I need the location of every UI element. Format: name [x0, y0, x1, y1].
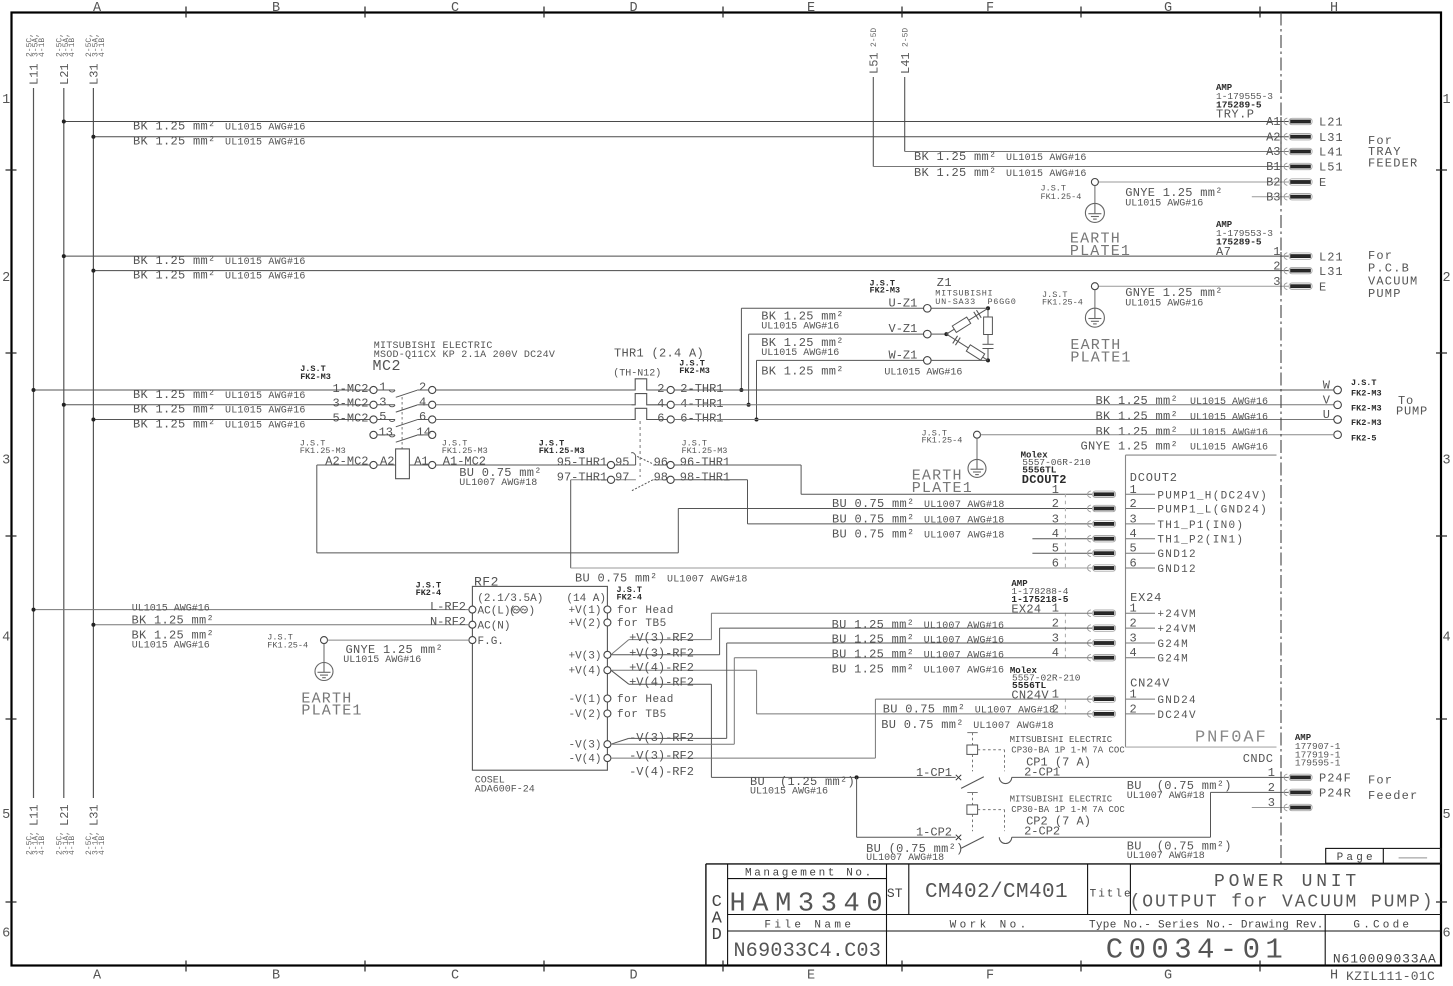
svg-text:-V(4)-RF2: -V(4)-RF2	[629, 765, 694, 779]
svg-text:V-Z1: V-Z1	[889, 322, 918, 336]
svg-text:BK 1.25 mm²: BK 1.25 mm²	[133, 388, 216, 402]
svg-text:E: E	[1319, 280, 1327, 294]
svg-text:G.Code: G.Code	[1353, 920, 1412, 932]
svg-text:N610009033AA: N610009033AA	[1333, 951, 1437, 966]
svg-text:H: H	[1330, 1, 1338, 16]
svg-text:2: 2	[657, 382, 664, 396]
svg-text:5: 5	[379, 410, 386, 424]
svg-text:FK2-M3: FK2-M3	[1351, 389, 1382, 399]
svg-text:13: 13	[379, 426, 393, 440]
svg-text:2-THR1: 2-THR1	[680, 382, 723, 396]
svg-text:Page: Page	[1337, 852, 1376, 864]
svg-text:UL1007 AWG#16: UL1007 AWG#16	[924, 636, 1005, 647]
svg-text:AC(N): AC(N)	[478, 620, 511, 632]
svg-text:FK2-M3: FK2-M3	[1351, 403, 1382, 413]
svg-text:D: D	[712, 926, 722, 945]
svg-text:-V(2): -V(2)	[568, 709, 601, 721]
svg-text:A: A	[93, 1, 102, 16]
svg-text:DCOUT2: DCOUT2	[1130, 471, 1178, 485]
svg-text:L41: L41	[899, 52, 913, 74]
svg-text:L11: L11	[28, 804, 42, 826]
svg-text:UL1015 AWG#16: UL1015 AWG#16	[761, 321, 839, 332]
svg-text:C0034-01: C0034-01	[1106, 934, 1288, 967]
svg-text:FK2-M3: FK2-M3	[300, 372, 331, 382]
svg-text:FK1.25-4: FK1.25-4	[267, 640, 308, 650]
svg-text:3: 3	[1130, 632, 1137, 646]
svg-text:A2: A2	[380, 454, 394, 468]
svg-text:UL1007 AWG#18: UL1007 AWG#18	[924, 530, 1005, 541]
svg-text:4-1B: 4-1B	[68, 836, 77, 855]
svg-text:4-1B: 4-1B	[38, 38, 47, 57]
svg-text:): )	[529, 605, 536, 617]
svg-text:+24VM: +24VM	[1157, 609, 1197, 621]
svg-text:96: 96	[654, 455, 668, 469]
svg-text:1: 1	[379, 381, 386, 395]
svg-text:UL1007 AWG#18: UL1007 AWG#18	[866, 853, 944, 864]
svg-text:BK 1.25 mm²: BK 1.25 mm²	[761, 365, 844, 379]
svg-text:1-CP1: 1-CP1	[916, 766, 952, 780]
svg-text:U-Z1: U-Z1	[889, 297, 918, 311]
svg-text:6: 6	[2, 927, 10, 942]
svg-text:3: 3	[1268, 796, 1275, 810]
svg-text:BU 0.75 mm²: BU 0.75 mm²	[881, 718, 964, 732]
svg-text:GND12: GND12	[1157, 564, 1197, 576]
svg-text:B2: B2	[1266, 176, 1280, 190]
svg-text:for TB5: for TB5	[617, 709, 667, 721]
svg-text:2-CP1: 2-CP1	[1024, 765, 1060, 779]
svg-text:F: F	[986, 969, 994, 984]
svg-text:BU 1.25 mm²: BU 1.25 mm²	[832, 663, 915, 677]
svg-text:A: A	[93, 969, 102, 984]
svg-text:FK2-5: FK2-5	[1351, 434, 1377, 444]
svg-text:BK 1.25 mm²: BK 1.25 mm²	[1095, 410, 1178, 424]
svg-text:UL1015 AWG#16: UL1015 AWG#16	[1125, 298, 1203, 309]
svg-text:C: C	[451, 969, 459, 984]
svg-text:4-1B: 4-1B	[98, 38, 107, 57]
svg-text:4: 4	[419, 395, 426, 409]
svg-text:BK 1.25 mm²: BK 1.25 mm²	[133, 120, 216, 134]
svg-text:3: 3	[1442, 454, 1450, 469]
svg-text:PUMP1_H(DC24V): PUMP1_H(DC24V)	[1157, 490, 1268, 502]
svg-text:BK 1.25 mm²: BK 1.25 mm²	[1095, 394, 1178, 408]
svg-text:UL1015 AWG#16: UL1015 AWG#16	[1190, 443, 1268, 454]
svg-text:+V(2): +V(2)	[568, 618, 601, 630]
svg-text:BK 1.25 mm²: BK 1.25 mm²	[133, 269, 216, 283]
svg-text:E: E	[807, 1, 815, 16]
svg-text:BK 1.25 mm²: BK 1.25 mm²	[133, 135, 216, 149]
svg-text:ADA600F-24: ADA600F-24	[475, 784, 535, 795]
svg-text:A2-MC2: A2-MC2	[325, 454, 368, 468]
svg-text:BU 0.75 mm²: BU 0.75 mm²	[832, 527, 915, 541]
svg-text:6-THR1: 6-THR1	[680, 412, 723, 426]
svg-text:2: 2	[1268, 781, 1275, 795]
svg-text:MITSUBISHI ELECTRIC: MITSUBISHI ELECTRIC	[1010, 735, 1113, 745]
svg-text:5: 5	[1130, 542, 1137, 556]
svg-text:BU 1.25 mm²: BU 1.25 mm²	[832, 618, 915, 632]
svg-text:3: 3	[379, 395, 386, 409]
svg-text:UL1015 AWG#16: UL1015 AWG#16	[132, 641, 210, 652]
svg-text:BU 0.75 mm²: BU 0.75 mm²	[832, 512, 915, 526]
svg-text:POWER UNIT: POWER UNIT	[1214, 872, 1360, 892]
svg-text:Title: Title	[1090, 889, 1133, 901]
svg-text:EX24: EX24	[1130, 591, 1162, 605]
svg-text:G24M: G24M	[1157, 654, 1189, 666]
svg-text:UL1007 AWG#16: UL1007 AWG#16	[924, 621, 1005, 632]
svg-text:UL1015 AWG#16: UL1015 AWG#16	[1006, 153, 1087, 164]
svg-text:FK2-M3: FK2-M3	[679, 366, 710, 376]
svg-text:4: 4	[1130, 646, 1137, 660]
svg-text:L51: L51	[1319, 161, 1344, 175]
svg-text:UL1007 AWG#16: UL1007 AWG#16	[924, 666, 1005, 677]
svg-text:FK2-4: FK2-4	[617, 593, 643, 603]
svg-text:BU 1.25 mm²: BU 1.25 mm²	[832, 647, 915, 661]
svg-text:UL1015 AWG#16: UL1015 AWG#16	[884, 368, 962, 379]
svg-text:1: 1	[2, 93, 10, 108]
svg-text:(14 A): (14 A)	[566, 593, 606, 605]
svg-text:E: E	[1319, 176, 1327, 190]
svg-text:L21: L21	[58, 63, 72, 85]
svg-text:UL1007 AWG#16: UL1007 AWG#16	[924, 650, 1005, 661]
svg-text:BK 1.25 mm²: BK 1.25 mm²	[914, 150, 997, 164]
svg-text:L31: L31	[88, 63, 102, 85]
svg-text:+V(3)-RF2: +V(3)-RF2	[629, 646, 694, 660]
svg-text:2: 2	[1130, 702, 1137, 716]
svg-text:+V(1): +V(1)	[568, 605, 601, 617]
svg-text:UL1007 AWG#18: UL1007 AWG#18	[1127, 851, 1205, 862]
svg-text:4-1B: 4-1B	[68, 38, 77, 57]
svg-text:CM402/CM401: CM402/CM401	[925, 881, 1068, 904]
svg-text:2-5D: 2-5D	[901, 28, 910, 47]
svg-text:TRY.P: TRY.P	[1216, 108, 1255, 122]
svg-text:FK2-4: FK2-4	[416, 588, 442, 598]
svg-text:D: D	[629, 969, 637, 984]
svg-text:4: 4	[2, 631, 10, 646]
svg-text:PUMP: PUMP	[1368, 287, 1402, 301]
svg-text:(OUTPUT for VACUUM PUMP): (OUTPUT for VACUUM PUMP)	[1130, 893, 1435, 913]
svg-text:B3: B3	[1266, 190, 1280, 204]
svg-text:2: 2	[1130, 497, 1137, 511]
svg-text:2: 2	[1273, 259, 1280, 273]
svg-text:PLATE1: PLATE1	[1070, 350, 1131, 367]
svg-text:UL1007 AWG#18: UL1007 AWG#18	[1127, 791, 1205, 802]
svg-text:UL1015 AWG#16: UL1015 AWG#16	[225, 391, 306, 402]
svg-text:5-MC2: 5-MC2	[332, 411, 368, 425]
svg-text:BU 0.75 mm²: BU 0.75 mm²	[832, 497, 915, 511]
svg-text:FK2-M3: FK2-M3	[870, 286, 901, 296]
svg-text:L31: L31	[1319, 131, 1344, 145]
svg-text:TH1_P2(IN1): TH1_P2(IN1)	[1157, 535, 1244, 547]
svg-text:2: 2	[1442, 271, 1450, 286]
svg-text:PUMP: PUMP	[1396, 405, 1428, 419]
svg-text:A7: A7	[1216, 245, 1231, 259]
svg-text:MITSUBISHI ELECTRIC: MITSUBISHI ELECTRIC	[1010, 795, 1113, 805]
svg-text:UL1007 AWG#18: UL1007 AWG#18	[924, 500, 1005, 511]
svg-text:GND24: GND24	[1157, 695, 1197, 707]
svg-text:P24R: P24R	[1319, 787, 1352, 801]
svg-text:-V(3)-RF2: -V(3)-RF2	[629, 731, 694, 745]
svg-text:+V(4)-RF2: +V(4)-RF2	[629, 675, 694, 689]
svg-text:95-THR1: 95-THR1	[557, 455, 607, 469]
svg-text:UL1015 AWG#16: UL1015 AWG#16	[225, 272, 306, 283]
svg-text:5: 5	[2, 808, 10, 823]
svg-text:6: 6	[1130, 557, 1137, 571]
svg-text:D: D	[629, 1, 637, 16]
svg-text:DC24V: DC24V	[1157, 710, 1197, 722]
svg-text:For: For	[1368, 774, 1393, 788]
svg-text:2: 2	[2, 271, 10, 286]
svg-text:L-RF2: L-RF2	[430, 600, 466, 614]
svg-text:B: B	[272, 969, 280, 984]
svg-text:AC(L): AC(L)	[478, 605, 511, 617]
svg-text:G24M: G24M	[1157, 639, 1189, 651]
svg-text:98-THR1: 98-THR1	[680, 471, 730, 485]
svg-text:P24F: P24F	[1319, 772, 1352, 786]
svg-text:4-THR1: 4-THR1	[680, 397, 723, 411]
svg-text:BK 1.25 mm²: BK 1.25 mm²	[1095, 425, 1178, 439]
svg-text:B: B	[272, 1, 280, 16]
svg-text:UL1015 AWG#16: UL1015 AWG#16	[225, 406, 306, 417]
svg-text:-V(3)-RF2: -V(3)-RF2	[629, 749, 694, 763]
svg-text:PNF0AF: PNF0AF	[1195, 729, 1268, 748]
svg-text:3: 3	[1130, 512, 1137, 526]
svg-text:UL1015 AWG#16: UL1015 AWG#16	[750, 787, 828, 798]
svg-text:C: C	[451, 1, 459, 16]
svg-text:4-1B: 4-1B	[98, 836, 107, 855]
svg-text:W: W	[1323, 379, 1331, 393]
svg-text:CP30-BA 1P 1-M 7A COC: CP30-BA 1P 1-M 7A COC	[1011, 746, 1125, 756]
svg-text:97-THR1: 97-THR1	[557, 471, 607, 485]
svg-text:BK 1.25 mm²: BK 1.25 mm²	[133, 254, 216, 268]
svg-text:for Head: for Head	[617, 605, 674, 617]
svg-text:U: U	[1323, 408, 1330, 422]
svg-text:FK1.25-4: FK1.25-4	[1041, 192, 1082, 202]
svg-text:(2.1/3.5A): (2.1/3.5A)	[477, 593, 543, 605]
svg-text:B1: B1	[1266, 160, 1280, 174]
svg-text:N-RF2: N-RF2	[430, 615, 466, 629]
svg-text:4: 4	[1442, 631, 1450, 646]
svg-text:6: 6	[657, 412, 664, 426]
svg-text:UL1015 AWG#16: UL1015 AWG#16	[343, 655, 421, 666]
svg-text:L31: L31	[1319, 265, 1344, 279]
svg-text:2-5D: 2-5D	[870, 28, 879, 47]
svg-text:A1: A1	[414, 454, 428, 468]
svg-text:GND12: GND12	[1157, 549, 1197, 561]
svg-text:UL1015 AWG#16: UL1015 AWG#16	[225, 257, 306, 268]
svg-text:UL1007 AWG#18: UL1007 AWG#18	[975, 706, 1056, 717]
svg-text:H: H	[1330, 969, 1338, 984]
svg-text:3: 3	[1273, 275, 1280, 289]
svg-text:4: 4	[1130, 527, 1137, 541]
svg-text:FK2-M3: FK2-M3	[1351, 418, 1382, 428]
svg-text:V: V	[1323, 393, 1331, 407]
svg-text:+V(3): +V(3)	[568, 650, 601, 662]
svg-text:6: 6	[419, 410, 426, 424]
svg-text:UL1015 AWG#16: UL1015 AWG#16	[761, 348, 839, 359]
svg-text:UL1015 AWG#16: UL1015 AWG#16	[1190, 397, 1268, 408]
svg-text:-V(3): -V(3)	[568, 740, 601, 752]
svg-text:for Head: for Head	[617, 694, 674, 706]
svg-text:3: 3	[2, 454, 10, 469]
svg-text:UL1015 AWG#16: UL1015 AWG#16	[225, 123, 306, 134]
svg-text:4: 4	[657, 397, 664, 411]
svg-text:G: G	[1164, 1, 1172, 16]
svg-text:FEEDER: FEEDER	[1368, 157, 1418, 171]
svg-text:L51: L51	[868, 52, 882, 74]
svg-text:+V(3)-RF2: +V(3)-RF2	[629, 631, 694, 645]
svg-text:UL1015 AWG#16: UL1015 AWG#16	[1125, 199, 1203, 210]
svg-text:UL1015 AWG#16: UL1015 AWG#16	[1190, 413, 1268, 424]
svg-text:EX24: EX24	[1011, 603, 1041, 617]
svg-text:F.G.: F.G.	[478, 636, 504, 648]
svg-text:UN-SA33 P6GG0: UN-SA33 P6GG0	[935, 297, 1016, 307]
svg-text:2: 2	[1052, 497, 1059, 511]
svg-text:GNYE 1.25 mm²: GNYE 1.25 mm²	[1080, 440, 1178, 454]
svg-text:+24VM: +24VM	[1157, 624, 1197, 636]
svg-text:98: 98	[654, 471, 668, 485]
svg-text:BK 1.25 mm²: BK 1.25 mm²	[132, 614, 215, 628]
svg-text:3: 3	[1052, 512, 1059, 526]
svg-text:2: 2	[1130, 617, 1137, 631]
svg-text:L21: L21	[58, 804, 72, 826]
svg-text:2: 2	[419, 381, 426, 395]
svg-text:L11: L11	[28, 63, 42, 85]
svg-text:A2: A2	[1266, 130, 1280, 144]
svg-text:ST: ST	[887, 886, 903, 901]
svg-text:2-CP2: 2-CP2	[1024, 825, 1060, 839]
svg-text:CN24V: CN24V	[1011, 688, 1049, 702]
svg-text:BK 1.25 mm²: BK 1.25 mm²	[133, 403, 216, 417]
svg-text:+V(4): +V(4)	[568, 666, 601, 678]
svg-text:A3: A3	[1266, 145, 1280, 159]
svg-text:MC2: MC2	[373, 358, 402, 375]
svg-text:1-MC2: 1-MC2	[332, 382, 368, 396]
svg-text:UL1015 AWG#16: UL1015 AWG#16	[225, 420, 306, 431]
svg-text:BK 1.25 mm²: BK 1.25 mm²	[133, 417, 216, 431]
svg-text:L31: L31	[88, 804, 102, 826]
svg-text:E: E	[807, 969, 815, 984]
svg-text:97: 97	[615, 471, 629, 485]
svg-text:L21: L21	[1319, 250, 1344, 264]
svg-text:J.S.T: J.S.T	[1351, 378, 1377, 388]
svg-text:4: 4	[1052, 527, 1059, 541]
svg-text:File Name: File Name	[764, 920, 854, 932]
svg-text:HAM3340: HAM3340	[730, 889, 890, 919]
svg-text:UL1015 AWG#16: UL1015 AWG#16	[1190, 428, 1268, 439]
svg-text:Type No.- Series No.- Drawing: Type No.- Series No.- Drawing Rev.	[1089, 920, 1324, 932]
svg-text:UL1007 AWG#18: UL1007 AWG#18	[459, 478, 537, 489]
svg-text:L41: L41	[1319, 146, 1344, 160]
svg-text:Management No.: Management No.	[745, 867, 874, 879]
svg-text:RF2: RF2	[474, 574, 499, 589]
svg-text:6: 6	[1442, 927, 1450, 942]
svg-text:A1: A1	[1266, 115, 1280, 129]
svg-text:PUMP1_L(GND24): PUMP1_L(GND24)	[1157, 505, 1268, 517]
svg-text:BU 1.25 mm²: BU 1.25 mm²	[832, 633, 915, 647]
svg-text:N69033C4.C03: N69033C4.C03	[734, 940, 882, 963]
svg-text:Work No.: Work No.	[950, 920, 1030, 932]
svg-text:UL1015 AWG#16: UL1015 AWG#16	[225, 138, 306, 149]
svg-text:1: 1	[1442, 93, 1450, 108]
svg-text:1: 1	[1268, 766, 1275, 780]
svg-text:FK1.25-4: FK1.25-4	[1042, 298, 1083, 308]
svg-text:14: 14	[417, 426, 431, 440]
svg-text:G: G	[1164, 969, 1172, 984]
svg-text:BU 0.75 mm²: BU 0.75 mm²	[575, 571, 658, 585]
svg-text:3-MC2: 3-MC2	[332, 397, 368, 411]
svg-text:+V(4)-RF2: +V(4)-RF2	[629, 661, 694, 675]
svg-text:W-Z1: W-Z1	[889, 348, 918, 362]
svg-text:KZIL111-01C: KZIL111-01C	[1346, 969, 1435, 984]
svg-text:(TH-N12): (TH-N12)	[613, 368, 661, 380]
svg-text:4-1B: 4-1B	[38, 836, 47, 855]
svg-text:1: 1	[1273, 245, 1280, 259]
svg-text:FK1.25-4: FK1.25-4	[922, 436, 963, 446]
svg-text:1-CP2: 1-CP2	[916, 826, 952, 840]
svg-text:5: 5	[1442, 808, 1450, 823]
svg-text:UL1007 AWG#18: UL1007 AWG#18	[667, 574, 748, 585]
svg-text:UL1007 AWG#18: UL1007 AWG#18	[973, 721, 1054, 732]
svg-text:UL1007 AWG#18: UL1007 AWG#18	[924, 515, 1005, 526]
svg-text:CNDC: CNDC	[1243, 752, 1274, 766]
svg-text:PLATE1: PLATE1	[301, 703, 362, 720]
svg-text:TH1_P1(IN0): TH1_P1(IN0)	[1157, 520, 1244, 532]
svg-text:DCOUT2: DCOUT2	[1022, 473, 1067, 487]
svg-text:UL1015 AWG#16: UL1015 AWG#16	[1006, 169, 1087, 180]
svg-text:BK 1.25 mm²: BK 1.25 mm²	[914, 166, 997, 180]
svg-text:for TB5: for TB5	[617, 618, 667, 630]
svg-text:Feeder: Feeder	[1368, 789, 1418, 803]
svg-text:F: F	[986, 1, 994, 16]
svg-text:95: 95	[615, 455, 629, 469]
svg-text:-V(4): -V(4)	[568, 754, 601, 766]
svg-text:179595-1: 179595-1	[1295, 757, 1341, 768]
svg-text:PLATE1: PLATE1	[1070, 243, 1131, 260]
svg-text:CP30-BA 1P 1-M 7A COC: CP30-BA 1P 1-M 7A COC	[1011, 805, 1125, 815]
svg-text:L21: L21	[1319, 116, 1344, 130]
svg-text:-V(1): -V(1)	[568, 694, 601, 706]
svg-text:CN24V: CN24V	[1130, 677, 1170, 691]
svg-text:5: 5	[1052, 542, 1059, 556]
svg-text:96-THR1: 96-THR1	[680, 455, 730, 469]
svg-text:6: 6	[1052, 557, 1059, 571]
